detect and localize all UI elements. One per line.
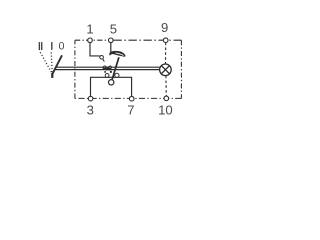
bridge fixed contact right [115, 73, 119, 77]
toggle lever dotted position line II [40, 52, 51, 72]
bridge conductor between terminals 3 and 7 (staple) [91, 77, 132, 96]
dashed wire lamp to terminal 10 [165, 76, 167, 96]
switch body enclosure top border (dash-dot) [75, 39, 112, 41]
terminal circle 9 [163, 38, 168, 43]
svg-text:9: 9 [161, 20, 168, 35]
indicator lamp L [160, 64, 172, 76]
bridge fixed contact left [105, 74, 109, 78]
switch body enclosure bottom border (dash-dot) [75, 97, 181, 99]
actuator wedge link [102, 67, 112, 71]
terminal circle 7 [129, 96, 134, 101]
actuator bar upper rail (mechanical link, double line) [55, 66, 160, 68]
pusher end ring contact [109, 80, 114, 85]
fixed contact of terminal 1 [100, 56, 104, 60]
terminal circle 3 [88, 96, 93, 101]
svg-text:10: 10 [158, 102, 173, 117]
svg-text:5: 5 [110, 21, 117, 36]
lamp cross stroke 1 [161, 66, 169, 74]
toggle lever (solid, position 0) [52, 55, 62, 74]
contact pusher lever from blade through bar [112, 57, 119, 79]
moving contact blade from terminal 5 [109, 51, 125, 57]
lamp cross stroke 2 [161, 66, 169, 74]
switch body enclosure left border (dash-dot) [74, 40, 76, 98]
terminal circle 1 [88, 38, 93, 43]
contact 1 stub wire [103, 59, 105, 62]
switch body enclosure right border (dash-dot) [180, 40, 182, 98]
svg-text:7: 7 [127, 102, 134, 117]
svg-text:0: 0 [58, 41, 64, 53]
contact link circle B on actuator bar [108, 66, 112, 70]
contact nub below bar left [104, 71, 106, 73]
toggle lever dotted position line I [51, 53, 52, 72]
lever pivot tail [51, 73, 53, 78]
terminal circle 10 [164, 96, 169, 101]
actuator bar lower rail (mechanical link, double line) [55, 69, 160, 71]
blade highlight slit [116, 53, 124, 56]
terminal 5 stem wire [110, 43, 112, 52]
position label I [51, 42, 52, 50]
contact nub below bar [110, 71, 112, 73]
dashed wire terminal 9 to lamp [165, 43, 167, 64]
svg-text:3: 3 [87, 102, 94, 117]
contact link circle A on actuator bar [103, 65, 106, 68]
svg-text:1: 1 [86, 21, 93, 36]
terminal circle 5 [109, 38, 114, 43]
position label II [39, 42, 43, 50]
terminal 1 connection wire (L-shape) [90, 43, 100, 56]
